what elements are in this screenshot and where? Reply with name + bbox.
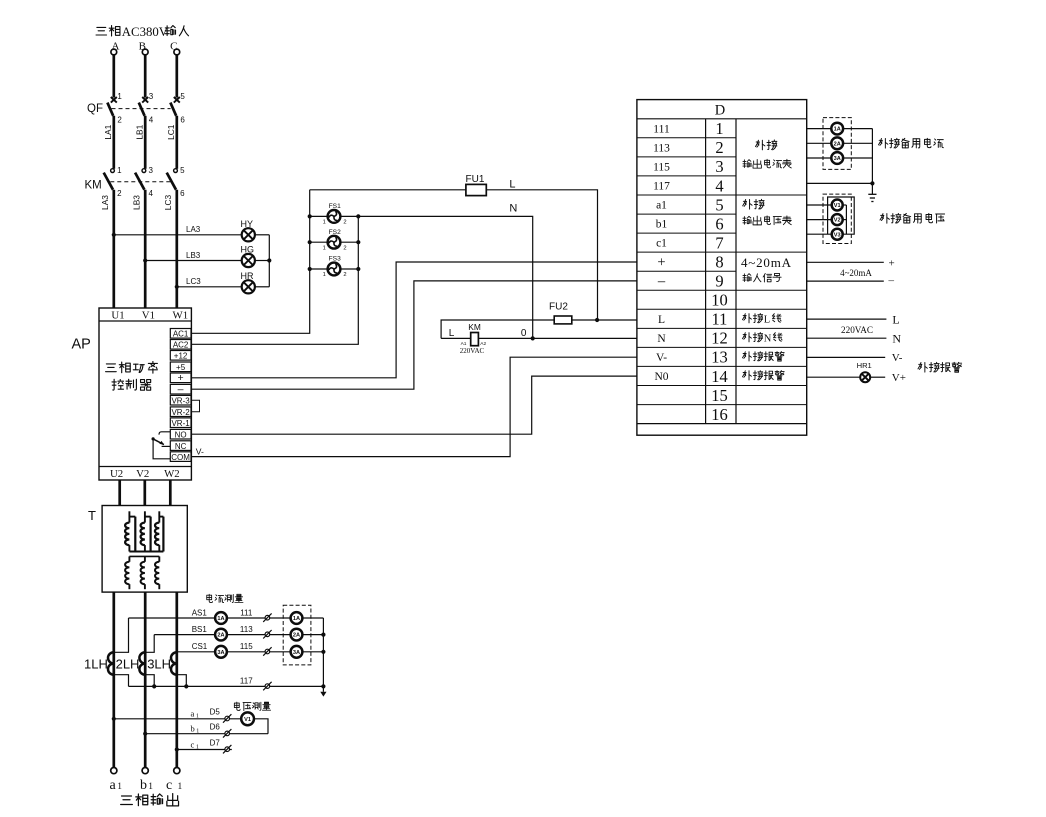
spare voltmeter V3 <box>832 229 843 240</box>
svg-text:NC: NC <box>175 442 187 451</box>
svg-text:W2: W2 <box>164 468 180 480</box>
svg-text:W1: W1 <box>173 309 189 321</box>
wire: lamp HR to common <box>255 286 269 288</box>
node: c1 tap <box>175 747 179 751</box>
svg-text:LA3: LA3 <box>100 195 110 210</box>
contactor KM pole 1 (contacts 1-2) <box>104 166 122 198</box>
terminal 13 label V- <box>656 352 667 364</box>
wire: 2LH S1 to BS1 <box>145 635 154 653</box>
svg-text:6: 6 <box>180 116 185 125</box>
svg-text:FU1: FU1 <box>466 174 485 185</box>
node: L riser junction on FU2 wire <box>595 318 599 322</box>
current transformer 3LH <box>147 652 177 674</box>
svg-text:LA1: LA1 <box>103 124 113 139</box>
svg-text:2A: 2A <box>834 141 841 147</box>
terminal 8 label + <box>657 254 665 270</box>
svg-text:1LH: 1LH <box>84 657 108 672</box>
node: tap on phase line for lamp HG <box>143 258 147 262</box>
description row 14: 外接报警 <box>742 371 784 381</box>
wire: 3LH S2 to 117 <box>177 675 187 687</box>
svg-text:U2: U2 <box>110 468 123 480</box>
wire: KM pole 1 down to AP <box>112 190 115 308</box>
node: collector to 117 <box>321 684 325 688</box>
svg-text:1A: 1A <box>293 616 300 622</box>
svg-text:4: 4 <box>149 189 154 198</box>
node: 2LH S2 junction <box>152 684 156 688</box>
wire: V1 to b1 row <box>254 719 268 734</box>
svg-text:4: 4 <box>149 116 154 125</box>
svg-text:b1: b1 <box>656 219 668 231</box>
description row 11: 外接L线 <box>742 313 781 325</box>
svg-text:117: 117 <box>240 677 253 686</box>
contactor coil KM (A1-A2, 220VAC) <box>460 322 487 355</box>
svg-text:N: N <box>509 202 517 214</box>
wires: AP U2/V2/W2 to transformer T <box>120 480 171 506</box>
wire CS1 with ammeter 3A to terminal 115 <box>177 642 324 656</box>
svg-text:2: 2 <box>343 245 346 251</box>
svg-text:2A: 2A <box>217 633 224 639</box>
cooling fan FS3 <box>310 256 359 279</box>
wire AS1 with ammeter 1A to terminal 111 <box>129 608 324 622</box>
net label L <box>509 179 515 191</box>
terminal 9 row number <box>715 272 723 291</box>
terminal 5 label a1 <box>656 200 667 212</box>
svg-text:VR-2: VR-2 <box>171 408 190 417</box>
transformer T primary windings <box>125 511 163 551</box>
svg-text:1: 1 <box>117 782 122 792</box>
dashed enclosure: spare ammeters <box>823 118 851 170</box>
svg-text:D7: D7 <box>210 738 221 747</box>
svg-text:V1: V1 <box>834 203 841 209</box>
wire: 2LH S2 to 117 <box>145 675 154 687</box>
svg-text:113: 113 <box>240 625 253 634</box>
svg-text:14: 14 <box>711 367 728 386</box>
svg-text:LC3: LC3 <box>186 277 201 286</box>
output terminal c1 <box>174 768 180 774</box>
wire: AP AC1 to L riser <box>191 190 309 333</box>
svg-text:2: 2 <box>715 138 723 157</box>
wire BS1 with ammeter 2A to terminal 113 <box>154 625 323 639</box>
label 电压测量 <box>234 702 270 711</box>
terminal 1 row number <box>715 119 723 138</box>
svg-text:1A: 1A <box>217 616 224 622</box>
wire N: from fan riser to KM coil line <box>358 216 532 338</box>
svg-text:3LH: 3LH <box>147 657 171 672</box>
svg-text:QF: QF <box>87 103 103 115</box>
svg-text:U1: U1 <box>111 309 124 321</box>
terminal 8 row number <box>715 253 723 272</box>
title: 三相AC380V输入 (three-phase AC380V input) <box>96 25 188 39</box>
AP terminal AC2 <box>170 340 191 350</box>
svg-text:LB3: LB3 <box>131 195 141 210</box>
svg-text:V-: V- <box>656 352 667 364</box>
svg-text:KM: KM <box>468 322 481 332</box>
terminal 4 row number <box>715 176 723 195</box>
svg-text:7: 7 <box>715 233 723 252</box>
wire b1/D6 <box>145 723 268 738</box>
controller AP box (三相功率控制器) <box>99 308 191 480</box>
svg-text:–: – <box>888 275 895 287</box>
svg-text:b: b <box>191 724 195 734</box>
terminal 11 label L <box>658 314 665 326</box>
svg-text:1: 1 <box>196 714 199 720</box>
svg-text:6: 6 <box>715 214 723 233</box>
svg-text:4~20mA: 4~20mA <box>741 255 792 270</box>
description row 13: 外接报警 <box>742 352 784 362</box>
wire: 1LH S1 to AS1 <box>114 618 129 652</box>
svg-text:2A: 2A <box>293 633 300 639</box>
svg-text:11: 11 <box>712 310 728 329</box>
net label N <box>509 202 517 214</box>
output labels a1 b1 c1 <box>110 778 183 793</box>
jumper bracket VR-3 to VR-2 <box>191 400 199 412</box>
node: right riser tap for FS2 <box>356 240 360 244</box>
terminal 7 row number <box>715 233 723 252</box>
svg-text:LB3: LB3 <box>186 251 201 260</box>
terminal 5 row number <box>715 195 723 214</box>
label 电流测量 <box>207 594 243 602</box>
indicator lamp HG <box>241 245 255 268</box>
svg-text:CS1: CS1 <box>192 642 208 651</box>
KM mechanical linkage (dashed) <box>110 181 171 183</box>
wire: QF pole 3 to KM <box>175 116 178 169</box>
wire: terminal 14 output V+ with alarm lamp <box>807 372 906 384</box>
wire label LA3 (vertical) <box>100 195 110 210</box>
wire 117 common <box>129 677 324 691</box>
terminal 6 label b1 <box>656 219 668 231</box>
svg-text:LB1: LB1 <box>135 124 145 139</box>
panel ammeter 2A <box>215 629 227 641</box>
svg-text:N0: N0 <box>654 371 668 383</box>
svg-text:+: + <box>889 257 895 269</box>
wire: KM coil line (to terminal 12) <box>441 337 637 339</box>
svg-text:AS1: AS1 <box>192 608 208 617</box>
svg-text:3: 3 <box>149 166 154 175</box>
contactor KM label <box>85 180 102 192</box>
cooling fan FS2 <box>310 229 359 252</box>
svg-text:111: 111 <box>240 608 253 617</box>
label V- at COM output <box>196 446 204 456</box>
ground arrow under collector <box>320 686 326 696</box>
wires: transformer output phase lines a/b/c <box>114 592 177 768</box>
svg-text:a1: a1 <box>656 200 667 212</box>
svg-text:–: – <box>657 273 666 289</box>
svg-text:1: 1 <box>196 744 199 750</box>
contactor KM pole 2 (contacts 3-4) <box>135 166 153 198</box>
svg-text:FU2: FU2 <box>549 302 568 313</box>
AP terminal +12 <box>170 351 191 361</box>
AP terminal W1 <box>173 309 189 321</box>
breaker QF pole 1 (contacts 1-2) <box>107 92 122 125</box>
wire: terminal 13 output V- <box>807 352 903 364</box>
svg-text:1: 1 <box>715 119 723 138</box>
svg-text:D: D <box>715 103 725 119</box>
terminal 3 row number <box>715 157 723 176</box>
svg-text:+: + <box>657 254 665 270</box>
spare ammeter 1A <box>831 123 843 135</box>
AP terminal W2 <box>164 468 180 480</box>
node: b1 tap <box>143 732 147 736</box>
svg-text:0: 0 <box>521 328 527 339</box>
svg-text:D6: D6 <box>210 723 221 732</box>
svg-text:V2: V2 <box>136 468 149 480</box>
svg-text:117: 117 <box>653 181 670 193</box>
svg-text:T: T <box>88 508 96 523</box>
node: N junction on coil line <box>531 336 535 340</box>
wire: phase A from terminal to QF <box>112 55 115 98</box>
spare ammeter 3A <box>831 152 843 164</box>
svg-text:NO: NO <box>175 431 187 440</box>
svg-text:2: 2 <box>117 116 122 125</box>
wire: KM pole 2 down to AP <box>144 190 147 308</box>
terminal block D outline <box>637 100 807 436</box>
svg-text:220VAC: 220VAC <box>841 325 873 335</box>
svg-text:KM: KM <box>85 180 102 192</box>
svg-text:–: – <box>178 384 184 396</box>
svg-text:L: L <box>764 315 770 326</box>
wire LB3 to lamp HG <box>145 251 242 261</box>
svg-text:111: 111 <box>653 123 670 135</box>
phase B input terminal <box>139 40 148 55</box>
fuse FU1 <box>466 174 487 196</box>
terminal 12 label N <box>657 333 666 345</box>
AP terminal – <box>170 384 191 396</box>
svg-text:AC1: AC1 <box>173 330 189 339</box>
svg-text:N: N <box>657 333 666 345</box>
description rows 5-7: 外接输出电压表 <box>743 199 792 225</box>
AP terminal VR-2 <box>170 407 191 417</box>
cooling fan FS1 <box>310 203 359 226</box>
svg-text:+5: +5 <box>176 363 186 372</box>
AP reference label <box>72 337 91 353</box>
label 220VAC <box>841 325 873 335</box>
wire: lamp HY to common <box>255 234 269 236</box>
breaker QF pole 2 (contacts 3-4) <box>139 92 154 125</box>
relay contact symbol (NO/NC/COM) <box>152 432 171 459</box>
svg-text:D5: D5 <box>210 708 221 717</box>
spare ammeter 3A (dashed box) <box>291 646 303 658</box>
terminal 14 label N0 <box>654 371 668 383</box>
wire a1/D5 to voltmeter V1 <box>114 708 241 723</box>
svg-text:1: 1 <box>323 245 326 251</box>
wire: 1LH S2 to 117 <box>114 675 129 687</box>
description rows 8-9: 4~20mA 输入信号 <box>741 255 792 282</box>
svg-text:COM: COM <box>171 453 190 462</box>
contactor KM pole 3 (contacts 5-6) <box>167 166 185 198</box>
description rows 1-4: 外接输出电流表 <box>743 140 791 168</box>
svg-text:2: 2 <box>343 220 346 226</box>
svg-text:V-: V- <box>196 446 204 456</box>
svg-text:1: 1 <box>323 220 326 226</box>
svg-text:8: 8 <box>715 253 723 272</box>
wire: terminal 9 output - <box>807 275 895 287</box>
wire: FU2 branch (L to terminal 11) <box>441 320 637 338</box>
svg-text:2: 2 <box>117 189 122 198</box>
svg-text:16: 16 <box>711 405 728 424</box>
svg-text:V2: V2 <box>834 218 841 224</box>
wire c1/D7 <box>177 738 232 753</box>
svg-text:113: 113 <box>653 143 670 155</box>
svg-text:a: a <box>110 778 117 793</box>
svg-text:L: L <box>449 328 455 339</box>
net label 0 <box>521 328 527 339</box>
terminal 4 label 117 <box>653 181 670 193</box>
dashed enclosure: spare current meters <box>283 605 311 665</box>
node: left riser tap for FS2 <box>308 240 312 244</box>
voltmeter interconnection wires <box>828 197 855 234</box>
indicator lamp HR <box>241 271 255 294</box>
indicator lamp HY <box>241 219 255 242</box>
svg-text:1: 1 <box>323 272 326 278</box>
wire L: from L riser through FU1 to FU2 line <box>310 190 598 320</box>
wire: QF pole 1 to KM <box>112 116 115 169</box>
wire label LA1 <box>103 124 113 139</box>
net label L (coil line) <box>449 328 455 339</box>
AP terminal U2 <box>110 468 123 480</box>
circuit breaker QF label <box>87 103 103 115</box>
svg-text:6: 6 <box>180 189 185 198</box>
svg-text:5: 5 <box>180 166 185 175</box>
svg-text:5: 5 <box>180 92 185 101</box>
node: CS1 on collector <box>321 650 325 654</box>
svg-text:N: N <box>764 334 772 345</box>
svg-text:V1: V1 <box>244 717 251 723</box>
node: left riser tap for FS3 <box>308 267 312 271</box>
svg-text:1: 1 <box>148 782 153 792</box>
svg-text:LC3: LC3 <box>163 194 173 210</box>
AP terminal V2 <box>136 468 149 480</box>
spare ammeter 2A (dashed box) <box>291 629 303 641</box>
wires: terminals 5-7 to spare voltmeters <box>807 205 832 234</box>
panel voltmeter V1 <box>241 712 254 725</box>
wire label LB1 <box>135 124 145 139</box>
svg-text:3A: 3A <box>293 650 300 656</box>
wire: terminal 8 output + <box>807 257 895 269</box>
AP terminal NC <box>170 441 191 451</box>
wire: terminal 12 output N <box>807 332 902 346</box>
svg-text:VR-1: VR-1 <box>171 419 190 428</box>
terminal 15 row number <box>711 386 728 405</box>
svg-text:12: 12 <box>711 329 728 348</box>
wire: AP + to terminal 8 <box>191 262 637 378</box>
AP terminal U1 <box>111 309 124 321</box>
svg-text:3A: 3A <box>217 650 224 656</box>
svg-text:AP: AP <box>72 337 91 353</box>
node: BS1 on collector <box>321 633 325 637</box>
terminal 11 row number <box>712 310 728 329</box>
AP terminal COM <box>170 452 191 462</box>
terminal 3 label 115 <box>653 162 670 174</box>
svg-text:V+: V+ <box>892 372 906 384</box>
label 4~20mA <box>840 268 872 278</box>
AP terminal +5 <box>170 362 191 372</box>
node: a1 tap <box>112 717 116 721</box>
alarm lamp HR1 <box>857 361 872 382</box>
svg-text:L: L <box>509 179 515 191</box>
phase A input terminal <box>111 40 120 55</box>
transformer T label <box>88 508 96 523</box>
output terminal b1 <box>142 768 148 774</box>
title: 三相输出 (three-phase output) <box>121 794 179 806</box>
svg-text:HR1: HR1 <box>857 361 872 370</box>
AP terminal V1 <box>142 309 155 321</box>
node: ground junction <box>870 181 874 185</box>
spare voltmeter V1 <box>832 200 843 211</box>
description row 12: 外接N线 <box>742 332 782 344</box>
wires: terminals 1-3 to spare ammeters <box>807 129 873 184</box>
output terminal a1 <box>111 768 117 774</box>
svg-text:115: 115 <box>653 162 670 174</box>
node: tap on phase line for lamp HR <box>175 285 179 289</box>
AP terminal VR-1 <box>170 418 191 428</box>
label 外接备用电压 <box>880 213 945 223</box>
phase C input terminal <box>170 40 180 55</box>
svg-text:N: N <box>892 332 901 346</box>
wire: meter collector vertical <box>322 618 324 686</box>
node: right riser tap for FS3 <box>356 267 360 271</box>
svg-text:V3: V3 <box>834 232 841 238</box>
terminal 10 row number <box>711 291 728 310</box>
svg-text:c: c <box>166 778 172 793</box>
current transformer 1LH <box>84 652 114 674</box>
svg-text:13: 13 <box>711 348 728 367</box>
wire label LC3 (vertical) <box>163 194 173 210</box>
breaker QF pole 3 (contacts 5-6) <box>170 92 185 125</box>
svg-text:L: L <box>892 313 899 327</box>
svg-text:220VAC: 220VAC <box>460 347 485 355</box>
terminal 16 row number <box>711 405 728 424</box>
wire label LC1 <box>166 124 176 140</box>
terminal 9 label – <box>657 273 666 289</box>
svg-text:2: 2 <box>343 272 346 278</box>
terminal 14 row number <box>711 367 728 386</box>
svg-text:c: c <box>191 739 195 749</box>
wire: terminal 4 to ground <box>807 182 873 184</box>
wire LA3 to lamp HY <box>114 225 242 235</box>
terminal 2 label 113 <box>653 143 670 155</box>
svg-text:b: b <box>140 778 147 793</box>
svg-text:AC380V: AC380V <box>122 25 169 39</box>
svg-text:L: L <box>658 314 665 326</box>
svg-text:BS1: BS1 <box>192 625 208 634</box>
wire LC3 to lamp HR <box>177 277 242 287</box>
svg-text:V1: V1 <box>142 309 155 321</box>
svg-text:+: + <box>178 372 184 384</box>
AP name text 三相功率控制器 <box>106 362 158 391</box>
terminal 6 row number <box>715 214 723 233</box>
svg-text:3: 3 <box>715 157 723 176</box>
panel ammeter 1A <box>215 612 227 624</box>
svg-text:+12: +12 <box>174 352 188 361</box>
transformer T secondary windings <box>125 556 159 589</box>
AP terminal AC1 <box>170 329 191 339</box>
wire: phase B from terminal to QF <box>144 55 147 98</box>
svg-text:c1: c1 <box>656 238 667 250</box>
ground symbol <box>868 183 876 201</box>
QF mechanical linkage (dashed) <box>112 108 171 110</box>
label 外接备用电流 <box>878 138 943 148</box>
svg-text:4: 4 <box>715 176 723 195</box>
svg-text:5: 5 <box>715 195 723 214</box>
node: left riser tap for FS1 <box>308 214 312 218</box>
svg-text:1: 1 <box>117 166 122 175</box>
svg-text:1: 1 <box>117 92 122 101</box>
svg-text:AC2: AC2 <box>173 341 189 350</box>
AP terminal VR-3 <box>170 395 191 405</box>
svg-text:9: 9 <box>715 272 723 291</box>
wire: terminal 11 output L <box>807 313 900 327</box>
wire: KM pole 3 down to AP <box>175 190 178 308</box>
